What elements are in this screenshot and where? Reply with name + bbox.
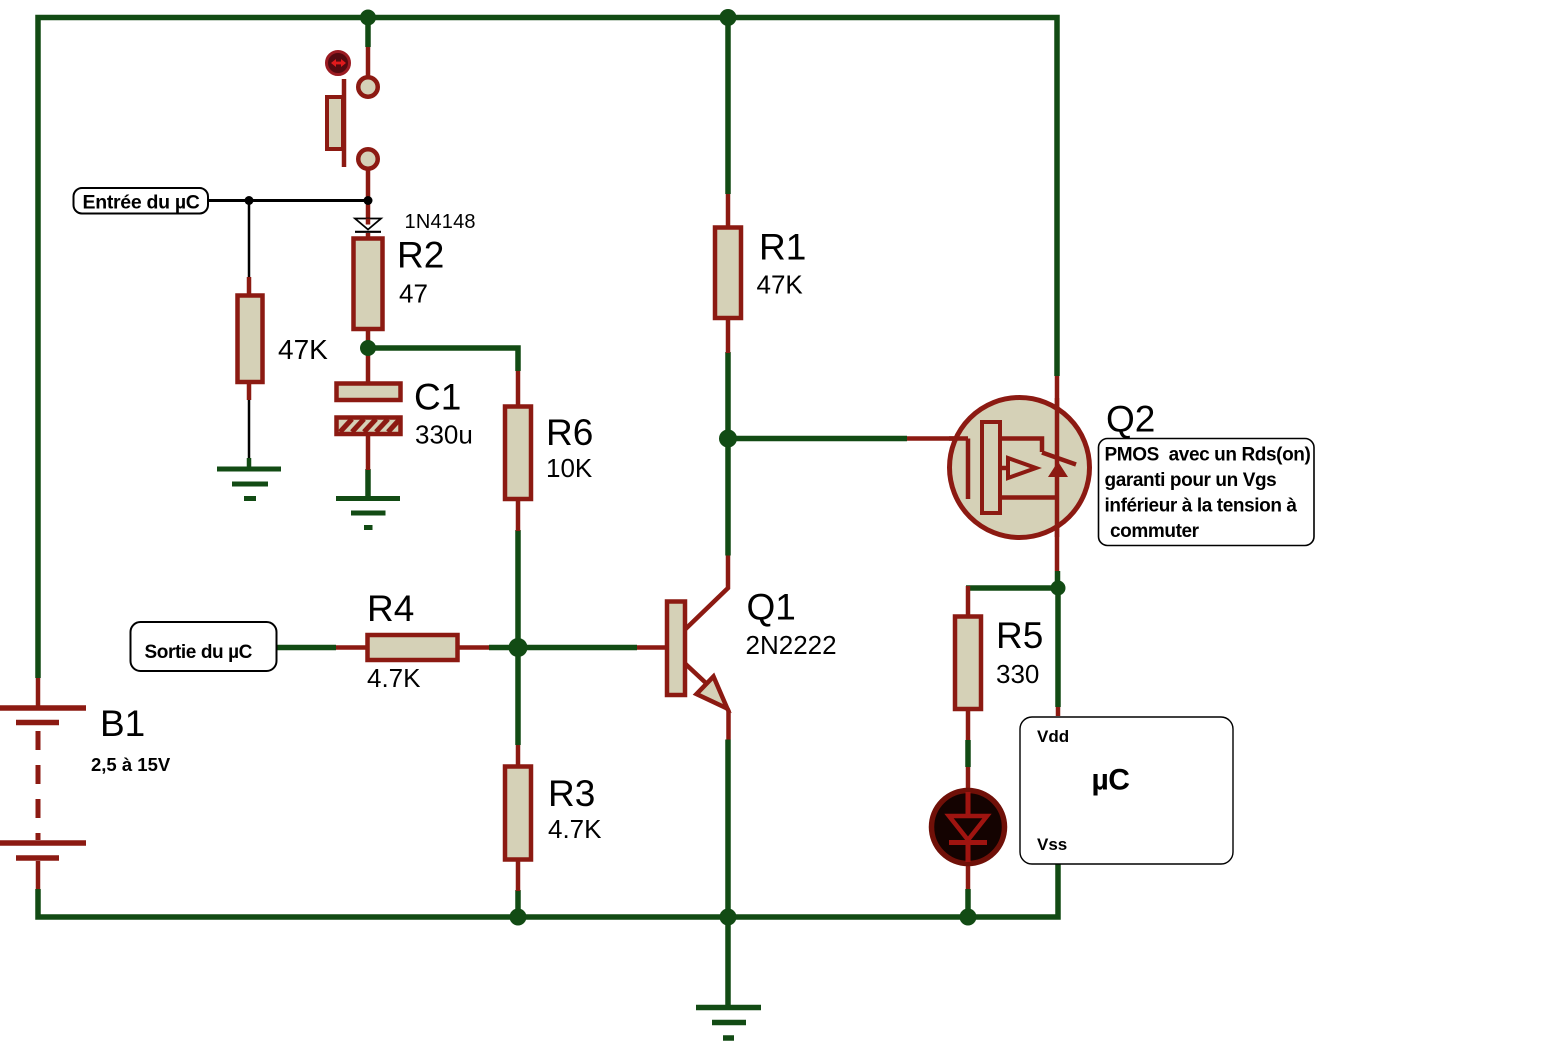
wire node A to R6 xyxy=(368,348,518,371)
resistor R5 xyxy=(955,617,981,710)
MOSFET Q2 xyxy=(949,398,1090,538)
push button SW1 xyxy=(327,77,378,169)
ground bottom middle xyxy=(696,1008,761,1039)
svg-text:Q2: Q2 xyxy=(1106,399,1155,440)
node junction top R1 xyxy=(720,9,737,26)
label R5 xyxy=(996,615,1043,656)
node A R2/C1/R6 xyxy=(360,340,376,356)
wire gate horizontal xyxy=(728,436,907,442)
wire button red segment xyxy=(366,47,371,77)
diode D1 xyxy=(355,219,381,232)
svg-text:10K: 10K xyxy=(546,453,593,483)
svg-text:330: 330 xyxy=(996,659,1039,689)
svg-text:µC: µC xyxy=(1092,764,1130,797)
value 47K left xyxy=(278,334,328,365)
wire black 47K top xyxy=(248,201,251,278)
resistor 47K left xyxy=(238,296,263,383)
wire green stub above 47K ground xyxy=(247,458,252,469)
wire base stub xyxy=(637,645,667,650)
wire R4 to base node xyxy=(489,645,518,651)
wire C1 to ground xyxy=(365,469,371,497)
svg-text:inférieur à la tension à: inférieur à la tension à xyxy=(1105,496,1298,517)
svg-text:R5: R5 xyxy=(996,615,1043,656)
svg-text:Q1: Q1 xyxy=(747,587,796,628)
wire gate red stub xyxy=(907,436,968,441)
svg-text:C1: C1 xyxy=(414,377,461,418)
wire collector vertical xyxy=(725,439,731,556)
wire outer frame left/top/right xyxy=(38,18,1057,679)
wire R3 stubs xyxy=(516,745,521,891)
ground under 47K xyxy=(217,469,281,499)
label R1 xyxy=(759,227,806,268)
wire R1 bottom to gate node xyxy=(725,352,731,439)
svg-text:Vdd: Vdd xyxy=(1037,727,1069,746)
svg-text:47K: 47K xyxy=(757,270,804,300)
wire LED to bottom rail xyxy=(965,889,971,917)
wire button to diode xyxy=(366,169,371,219)
push button icon xyxy=(327,52,350,75)
svg-text:R1: R1 xyxy=(759,227,806,268)
wire 47K left stubs xyxy=(247,277,252,400)
wire emitter to bottom rail xyxy=(725,740,731,918)
svg-text:Sortie du µC: Sortie du µC xyxy=(145,642,253,663)
label Q1 xyxy=(747,587,796,628)
transistor Q1 xyxy=(667,556,729,740)
svg-text:2N2222: 2N2222 xyxy=(746,630,837,660)
wire drain node down to uC Vdd xyxy=(1055,588,1061,707)
resistor R6 xyxy=(505,407,531,500)
svg-text:R6: R6 xyxy=(546,412,593,453)
wire bottom rail xyxy=(38,864,1058,917)
value 47K xyxy=(757,270,804,300)
svg-text:R4: R4 xyxy=(367,588,414,629)
node base junction xyxy=(509,638,528,657)
wire C1 bottom stub xyxy=(366,434,371,470)
svg-text:4.7K: 4.7K xyxy=(548,814,602,844)
node bottom LED xyxy=(960,909,977,926)
wire R6 stubs xyxy=(516,371,521,531)
svg-text:4.7K: 4.7K xyxy=(367,663,421,693)
label Q2 xyxy=(1106,399,1155,440)
svg-text:garanti pour un Vgs: garanti pour un Vgs xyxy=(1105,470,1277,491)
svg-text:2,5 à 15V: 2,5 à 15V xyxy=(91,754,171,775)
wire drain green above junction xyxy=(1055,571,1061,588)
wire uC Vdd red stub xyxy=(1056,707,1061,716)
svg-text:R3: R3 xyxy=(548,773,595,814)
wire R3 bottom xyxy=(515,890,521,917)
label B1 xyxy=(100,703,145,744)
resistor R1 xyxy=(715,228,741,319)
wire right column through Q2 xyxy=(1055,376,1060,571)
wire black entree xyxy=(207,199,368,202)
label box Sortie du uC xyxy=(131,622,277,671)
LED D2 xyxy=(932,791,1005,864)
node bottom R3 xyxy=(510,909,527,926)
svg-text:47K: 47K xyxy=(278,334,328,365)
wire R5 stubs xyxy=(966,586,971,740)
node black entree junction xyxy=(245,196,254,205)
node gate junction xyxy=(719,430,737,448)
resistor R3 xyxy=(505,767,531,860)
svg-text:B1: B1 xyxy=(100,703,145,744)
value 330u xyxy=(415,420,473,450)
label box Entree du uC xyxy=(74,188,209,214)
svg-text:Vss: Vss xyxy=(1037,835,1067,854)
node drain junction xyxy=(1051,581,1066,596)
value 4.7K R4 xyxy=(367,663,421,693)
svg-text:R2: R2 xyxy=(397,235,444,276)
svg-text:47: 47 xyxy=(399,279,428,309)
ground under C1 xyxy=(336,499,400,528)
value 2N2222 xyxy=(746,630,837,660)
wire drain node to R5 xyxy=(966,585,1058,591)
wire R2 to C1 xyxy=(366,329,371,383)
label R6 xyxy=(546,412,593,453)
wire black 47K bottom xyxy=(248,399,251,458)
resistor R4 xyxy=(368,635,458,660)
wire R1 stubs xyxy=(726,194,731,353)
label C1 xyxy=(414,377,461,418)
annotation box PMOS xyxy=(1099,439,1315,546)
label R4 xyxy=(367,588,414,629)
node junction top button xyxy=(360,10,376,26)
wire LED stubs xyxy=(966,767,971,889)
wire base node to R3 xyxy=(515,648,521,746)
wire bottom ground drop xyxy=(725,917,731,1006)
value 330 xyxy=(996,659,1039,689)
wire sortie to R4 xyxy=(276,645,336,651)
value 2,5 a 15V xyxy=(91,754,171,775)
svg-text:1N4148: 1N4148 xyxy=(405,211,476,233)
svg-text:330u: 330u xyxy=(415,420,473,450)
node bottom emitter xyxy=(720,909,737,926)
svg-text:commuter: commuter xyxy=(1110,521,1200,542)
label R3 xyxy=(548,773,595,814)
label 1N4148 xyxy=(405,211,476,233)
battery B1 xyxy=(0,708,86,858)
wire button drop xyxy=(365,18,371,48)
label R2 xyxy=(397,235,444,276)
wire diode to R2 xyxy=(366,233,371,239)
svg-text:Entrée du µC: Entrée du µC xyxy=(83,192,200,214)
wire R5 to LED xyxy=(965,740,971,767)
node black diode junction xyxy=(364,196,373,205)
resistor R2 xyxy=(354,239,383,330)
wire R1 column top xyxy=(725,18,731,195)
value 47 xyxy=(399,279,428,309)
uC box xyxy=(1020,717,1233,864)
wire battery red stubs xyxy=(36,678,41,889)
capacitor C1 xyxy=(337,384,401,435)
svg-text:PMOS avec un Rds(on): PMOS avec un Rds(on) xyxy=(1105,445,1311,466)
value 10K xyxy=(546,453,593,483)
wire R4 stubs xyxy=(336,645,489,650)
value 4.7K R3 xyxy=(548,814,602,844)
wire base horizontal xyxy=(518,645,637,651)
wire R6 bottom to base node xyxy=(515,530,521,648)
